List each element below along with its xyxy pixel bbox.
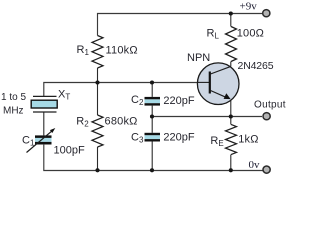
wire C2 branch from base node bbox=[151, 83, 153, 97]
crystal XT bbox=[31, 96, 57, 112]
svg-text:Output: Output bbox=[254, 100, 286, 111]
wire bottom rail (0v) bbox=[44, 145, 263, 171]
wire RE top lead bbox=[230, 117, 232, 125]
wire crystal to C1 lead bbox=[43, 112, 45, 135]
svg-text:MHz: MHz bbox=[3, 106, 24, 117]
svg-text:+9v: +9v bbox=[240, 1, 258, 13]
junction 0v rail / RE bbox=[229, 168, 233, 172]
resistor R1 bbox=[92, 36, 103, 69]
svg-text:1kΩ: 1kΩ bbox=[238, 133, 258, 145]
junction emitter wire / RE bbox=[229, 114, 233, 118]
transistor Q1 2N4265 bbox=[197, 63, 239, 105]
junction top rail / RL bbox=[229, 11, 233, 15]
svg-text:100pF: 100pF bbox=[54, 144, 85, 156]
wire R2 bottom lead to 0v rail bbox=[97, 147, 99, 171]
svg-text:0v: 0v bbox=[249, 159, 261, 171]
junction base node / R1 R2 bbox=[95, 80, 99, 84]
svg-text:NPN: NPN bbox=[187, 52, 210, 64]
terminal Output bbox=[263, 113, 270, 120]
wire RE bottom lead bbox=[230, 155, 232, 171]
junction base node / C2 branch bbox=[150, 80, 154, 84]
wire emitter wire to C3 bbox=[151, 117, 153, 133]
resistor R2 bbox=[92, 115, 103, 147]
resistor RE bbox=[226, 124, 237, 154]
wire C2 to emitter wire bbox=[151, 106, 153, 117]
junction 0v rail / R2 bbox=[95, 168, 99, 172]
svg-text:680kΩ: 680kΩ bbox=[105, 116, 138, 128]
terminal +9v bbox=[263, 10, 270, 17]
wire top rail (+9v supply rail) bbox=[98, 14, 263, 36]
wire R2 top lead from base node bbox=[97, 83, 99, 116]
resistor RL bbox=[226, 27, 237, 62]
capacitor C1 (variable) bbox=[27, 128, 56, 153]
svg-text:2N4265: 2N4265 bbox=[238, 60, 274, 72]
wire R1 bottom lead to base node bbox=[97, 68, 99, 83]
junction emitter wire / C2 C3 bbox=[150, 114, 154, 118]
junction 0v rail / C3 bbox=[150, 168, 154, 172]
wire RL bottom lead / collector bbox=[230, 62, 232, 67]
svg-text:100Ω: 100Ω bbox=[237, 28, 264, 40]
terminal 0v bbox=[263, 166, 270, 173]
svg-text:110kΩ: 110kΩ bbox=[106, 44, 138, 56]
wire RL top lead bbox=[230, 14, 232, 27]
svg-text:220pF: 220pF bbox=[163, 95, 194, 107]
wire emitter to output node bbox=[230, 99, 232, 116]
capacitor C2 bbox=[145, 97, 161, 106]
capacitor C3 bbox=[145, 133, 161, 142]
svg-text:1 to 5: 1 to 5 bbox=[1, 92, 26, 103]
wire base node horizontal bbox=[44, 83, 198, 97]
wire C3 to 0v rail bbox=[151, 142, 153, 171]
wire emitter/output horizontal bbox=[152, 116, 262, 118]
svg-text:220pF: 220pF bbox=[163, 131, 194, 143]
